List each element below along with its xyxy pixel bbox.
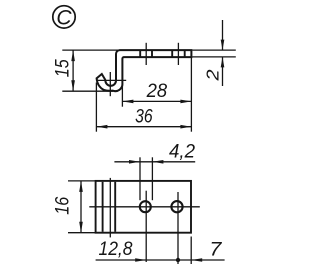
dimension 16: top extension line (68, 180, 96, 182)
bottom view: plate rectangle (96, 181, 191, 233)
bottom view: curl edge line (102, 182, 104, 232)
bottom view: hole 2 circle (171, 201, 182, 212)
dimension 15: bottom extension line (62, 90, 113, 92)
svg-text:C: C (56, 6, 72, 29)
svg-text:36: 36 (135, 107, 153, 128)
svg-text:7: 7 (209, 239, 223, 260)
side view: roll center crosshair vertical (109, 72, 111, 96)
bottom view: hole 2 vertical centerline (177, 192, 179, 264)
bottom view: horizontal centerline (89, 206, 200, 208)
dimension 28: left extension line (121, 83, 123, 107)
svg-text:28: 28 (146, 81, 168, 102)
side view: roll center crosshair horizontal (97, 79, 126, 81)
dimension 7: right edge extension line (190, 237, 192, 265)
dimension 7: chain dot at hole 2 centerline (176, 258, 180, 262)
dimension 4,2: dimension line with outside arrows (114, 160, 195, 164)
dimension 28: dimension line with arrows (122, 100, 191, 104)
side view: hole 1 right wall (151, 50, 153, 57)
side view: hole 1 left wall (139, 50, 141, 57)
dimension 12,8 and 7: shared dimension line (96, 259, 225, 261)
bottom view: bend edge line (114, 182, 116, 232)
side view: hole 2 axis centerline (177, 43, 179, 65)
side view: hole 1 axis centerline (145, 43, 147, 65)
dimension 16: dimension line with arrows (79, 181, 83, 233)
svg-text:12,8: 12,8 (99, 239, 133, 260)
bottom view: hole 1 vertical centerline (145, 191, 147, 262)
svg-text:4,2: 4,2 (169, 141, 195, 162)
side view: part cross-section outline (hook clip profile) (97, 50, 192, 91)
dimension 2: upper arrow and leader (221, 20, 225, 86)
shared right extension line (part end) (190, 58, 192, 132)
dimension 36: left extension line (95, 83, 97, 132)
side view: hole 2 left wall (171, 50, 173, 57)
bottom view: curl tangent thin line (109, 178, 111, 238)
dimension 2: top thin extension line (192, 49, 236, 51)
svg-text:15: 15 (52, 59, 73, 77)
dimension 2: bottom thin extension line (192, 56, 236, 58)
view label circle C (53, 6, 75, 30)
side view: hole 2 right wall (184, 50, 186, 57)
dimension 4,2: right tangent extension line (151, 157, 153, 200)
svg-text:16: 16 (52, 196, 73, 214)
dimension 15: dimension line with arrows (71, 50, 75, 91)
dimension 16: bottom extension line (68, 232, 96, 234)
bottom view: hole 1 circle (140, 201, 151, 212)
dimension 15: top extension line (62, 49, 119, 51)
dimension 7: arrow at right edge (191, 258, 202, 262)
svg-text:2: 2 (203, 69, 223, 81)
dimension 12,8: arrow at hole 1 centerline (135, 258, 146, 262)
dimension 4,2: left tangent extension line (139, 157, 141, 200)
dimension 36: dimension line with arrows (96, 125, 191, 129)
